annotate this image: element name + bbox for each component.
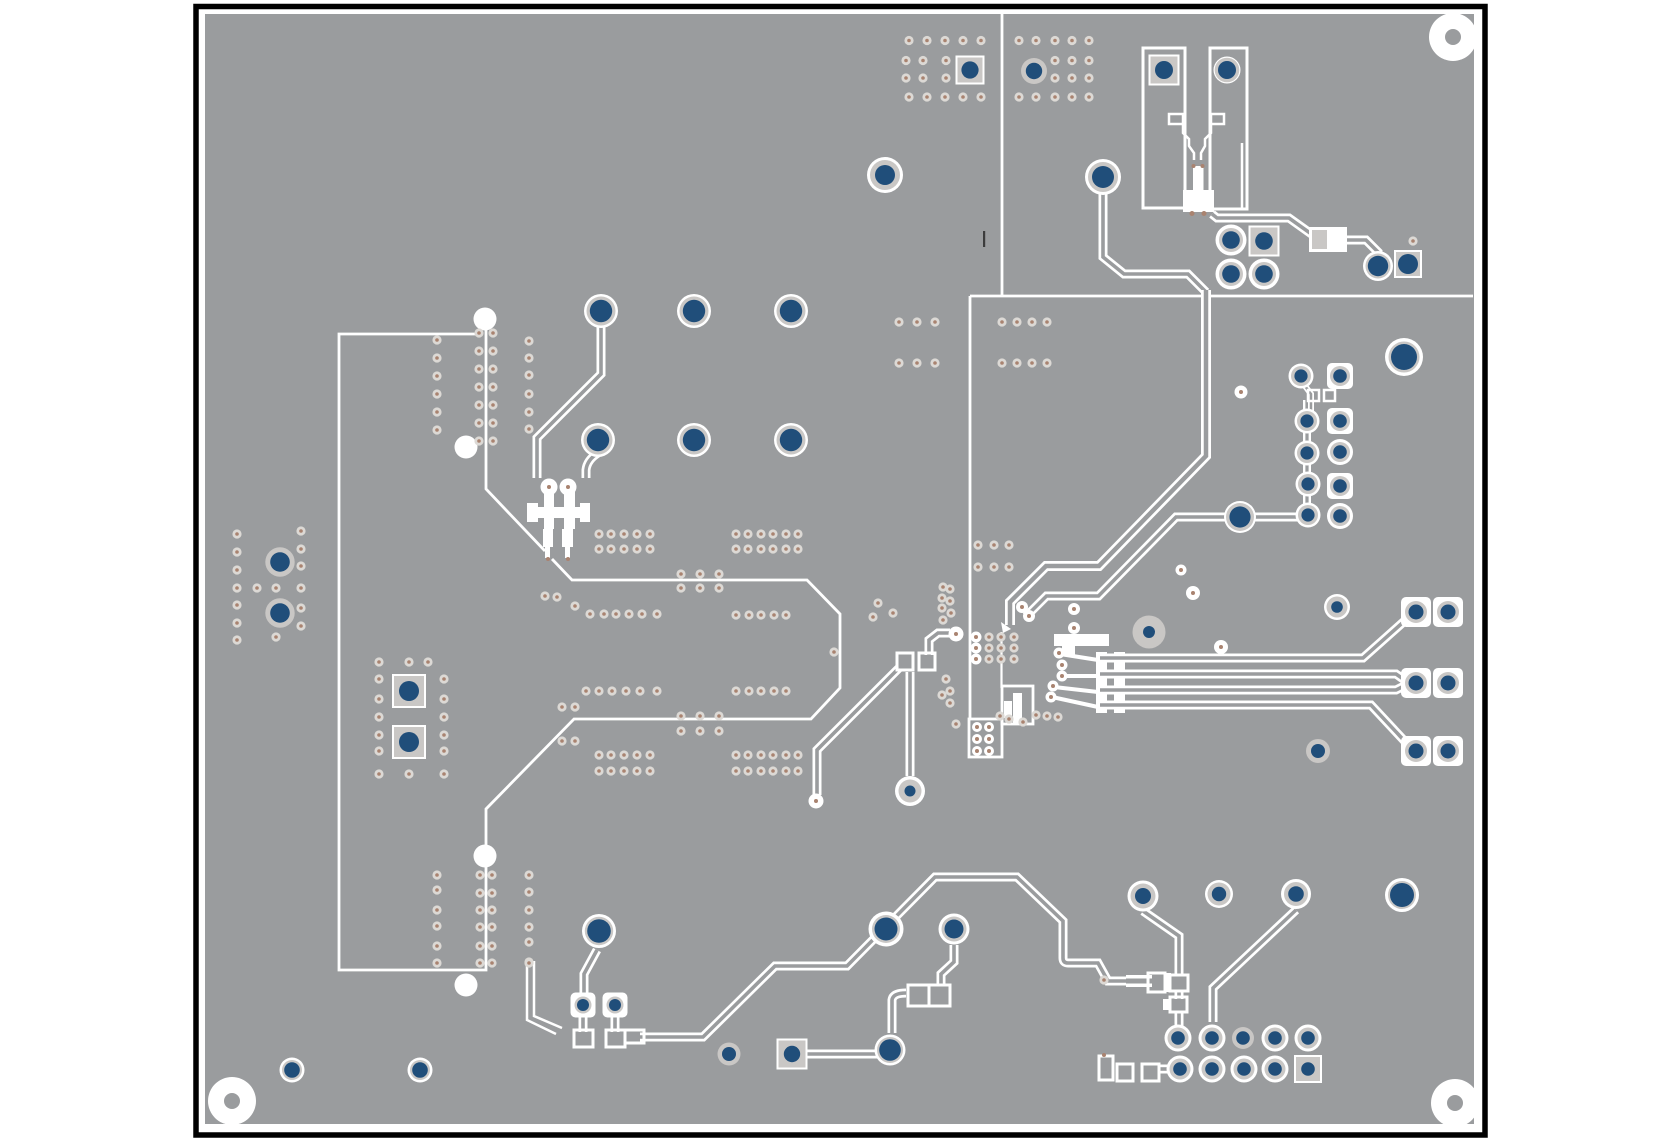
pad cluster mid-top-right: [997, 317, 1051, 367]
via G6: [1167, 1056, 1194, 1083]
central plane region pad box: [969, 719, 1002, 757]
white pad b: [1186, 586, 1200, 600]
antenna taper left: [1183, 125, 1194, 160]
resistor network RN1 bars: [1096, 652, 1125, 713]
pad single right: [829, 647, 838, 656]
via C4: [1249, 259, 1280, 290]
pad row low-left: [581, 686, 661, 695]
trace end pad right: [949, 627, 964, 642]
trace via H3 to R4: [941, 945, 954, 984]
trace via D1 to via column: [1255, 513, 1300, 522]
pad cluster top-left: [901, 36, 985, 102]
via G4: [1262, 1025, 1289, 1052]
pad trio lower: [676, 711, 723, 735]
via E2: [571, 993, 596, 1018]
pad grid center: [984, 632, 1018, 663]
mounting hole bottom-right: [1431, 1079, 1479, 1127]
mounting hole bottom-left: [208, 1077, 256, 1125]
fanout trace 4: [1100, 705, 1411, 748]
antenna feed channel: [1193, 166, 1204, 190]
via G8: [1231, 1056, 1258, 1083]
pad scatter center-left: [868, 598, 897, 621]
pad scatter center: [937, 582, 1062, 728]
trace end pad left: [809, 794, 824, 809]
via T4: [1214, 57, 1241, 84]
via P1a: [1401, 597, 1431, 627]
via F3: [1281, 879, 1311, 909]
RN1 stub 2: [1063, 674, 1098, 678]
trace via F1 to R3: [1143, 911, 1179, 974]
transistor Q1 body: [527, 489, 590, 558]
via E4 (tented): [718, 1043, 741, 1066]
via E1 (large): [582, 914, 616, 948]
pad cluster mid-top-left: [894, 317, 939, 367]
edge pad bump column: [971, 632, 982, 643]
white pad a: [1176, 565, 1187, 576]
via D1 (large): [1224, 501, 1256, 533]
via F2: [1205, 880, 1233, 908]
via column link: [1303, 400, 1311, 516]
trace square pad to via H2: [800, 1050, 877, 1059]
via D2 (large): [1385, 338, 1423, 376]
via P1b: [1433, 597, 1463, 627]
via col 3b: [1327, 439, 1353, 465]
via A5 (large): [677, 423, 711, 457]
via K1: [280, 1058, 305, 1083]
trace bundle outer (plane edge): [1010, 290, 1206, 625]
antenna feed tab left: [1169, 114, 1183, 124]
trace R3 to via G1: [1175, 1011, 1184, 1032]
via L4 (square pad): [392, 725, 426, 759]
trace R2 to end pad: [817, 668, 899, 795]
antenna feed dots: [1190, 164, 1207, 216]
via P3a: [1401, 736, 1431, 766]
pad pair lowest: [557, 736, 579, 745]
fiducial tick: [983, 231, 985, 247]
via C6 (square pad): [1394, 250, 1422, 278]
antenna element right (outline): [1210, 48, 1247, 209]
antenna slot line: [1241, 143, 1244, 208]
pad row bottom-left: [594, 750, 654, 775]
white pad g: [1068, 622, 1080, 634]
via B2 (large): [1085, 159, 1121, 195]
via C2 (square pad): [1249, 226, 1280, 257]
via H3: [939, 914, 970, 945]
fanout trace 3: [1100, 685, 1406, 690]
via A3 (large): [774, 294, 808, 328]
pad scatter upper: [540, 591, 579, 610]
via G3 (tented): [1232, 1027, 1254, 1049]
clearance hole top: [474, 308, 497, 331]
black border frame: [196, 7, 1485, 1136]
pad column 1 lower: [432, 870, 441, 967]
box pads: [972, 722, 982, 732]
white pad chain: [1054, 648, 1065, 659]
cluster drop line: [1000, 632, 1002, 688]
trace connector link: [1158, 1065, 1172, 1074]
pad row mid-right: [731, 610, 790, 619]
pad row mid-left: [585, 609, 661, 618]
RN1 stub 4: [1052, 697, 1098, 707]
long bottom trace: [640, 877, 1128, 1037]
via A4 (large): [581, 423, 615, 457]
pad row bottom-right: [731, 750, 802, 775]
via G10 (square pad): [1294, 1055, 1322, 1083]
via G1: [1165, 1025, 1192, 1052]
trace antenna feed to R1: [1212, 214, 1317, 238]
via col 4a: [1296, 472, 1321, 497]
resistor R2 pads: [897, 653, 935, 670]
trace via F3 to via G2: [1213, 910, 1296, 1022]
via K2: [408, 1058, 433, 1083]
R3 neck: [1175, 990, 1184, 999]
stub line pair b: [534, 961, 562, 1028]
via H4 (large): [869, 912, 904, 947]
antenna feed pad: [1183, 190, 1214, 212]
component R5 pads: [574, 1030, 644, 1047]
via C5: [1363, 251, 1393, 281]
pad row low-right: [731, 686, 790, 695]
via L3 (square pad): [392, 674, 426, 708]
transistor Q1 pin2 hole: [560, 479, 577, 496]
resistor R1 pads: [1309, 227, 1347, 252]
via M3 (tented): [1306, 739, 1330, 763]
via column jog squares: [1308, 390, 1335, 401]
left plane region outline: [339, 334, 840, 970]
via T1 (square pad): [956, 56, 985, 85]
trace from via B2 down-right: [1103, 192, 1206, 292]
via col 2b: [1327, 408, 1353, 434]
transistor Q1 leg dots: [546, 557, 570, 561]
via col 5b: [1327, 503, 1353, 529]
trace R2 to end pad right: [929, 633, 950, 655]
resistor R4 pads: [908, 985, 950, 1006]
long bottom trace end: [1126, 975, 1152, 987]
component R3 pads: [1148, 973, 1188, 1012]
via col 5a: [1296, 503, 1321, 528]
via M2: [1324, 594, 1350, 620]
clearance hole mid: [455, 436, 478, 459]
via E5 (square pad): [777, 1039, 808, 1070]
via C1: [1216, 225, 1247, 256]
via col S-link: [1302, 382, 1311, 418]
connector J2 shell: [1099, 1053, 1159, 1081]
pad pair low: [557, 702, 579, 711]
via col 1b: [1327, 363, 1353, 389]
antenna feed tab right: [1211, 114, 1224, 124]
pad trio upper: [676, 569, 723, 592]
pad column 2 lower: [475, 870, 496, 967]
trace bundle inner from via D1: [1026, 517, 1237, 617]
RN1 stub 3: [1054, 687, 1098, 692]
pad row arrow top-left: [594, 529, 654, 553]
component U2 bar: [1054, 634, 1109, 656]
via G7: [1199, 1056, 1226, 1083]
trace R4 to via H2: [892, 993, 906, 1033]
trace via H1 up: [906, 672, 915, 776]
via col 4b: [1327, 473, 1353, 499]
via A1 (large): [584, 294, 618, 328]
via A6 (large): [774, 423, 808, 457]
via P2b: [1433, 668, 1463, 698]
via col 2a: [1295, 409, 1320, 434]
via G5: [1295, 1025, 1322, 1052]
via col 1a: [1289, 364, 1314, 389]
white pad d: [1016, 601, 1028, 613]
white pad c: [1214, 640, 1228, 654]
stub line pair a: [527, 963, 556, 1034]
via G9: [1262, 1056, 1289, 1083]
pad row arrow top-right: [731, 529, 802, 553]
via P3b: [1433, 736, 1463, 766]
via col 3a: [1295, 441, 1320, 466]
trace from via A1 to Q1 pin1: [537, 325, 601, 478]
pad dots trace jog: [1099, 236, 1417, 984]
via M1 (tented): [1133, 616, 1166, 649]
antenna element left (outline): [1143, 48, 1185, 208]
white pad f: [1068, 603, 1080, 615]
pad column 2 upper: [474, 328, 497, 445]
pad grid center upper: [973, 540, 1013, 571]
white pad e: [1023, 610, 1035, 622]
trace from via A4 to Q1 pin2: [586, 453, 598, 478]
trace via E3 to pad: [611, 1012, 620, 1032]
clearance hole on edge: [474, 845, 497, 868]
pad column 3 upper: [524, 336, 533, 433]
bundle end wedge: [1001, 622, 1011, 633]
via T2 (tented): [1021, 58, 1047, 84]
via G2: [1199, 1025, 1226, 1052]
plane split vertical: [1001, 14, 1004, 295]
via T5 (large): [867, 157, 903, 193]
left plane region right edge: [486, 327, 545, 551]
pad cluster left vias: [232, 526, 305, 644]
antenna taper right: [1201, 125, 1211, 160]
via L1 (tented): [265, 547, 294, 576]
via E3: [603, 993, 628, 1018]
via A2 (large): [677, 294, 711, 328]
plane split horizontal: [970, 295, 1473, 298]
via T3 (square pad): [1149, 55, 1180, 86]
pad column 1 upper: [432, 335, 441, 434]
via H2 (large): [875, 1035, 906, 1066]
component U3 outline: [1002, 686, 1033, 724]
white pad right-mid: [1235, 386, 1248, 399]
trace via E1 to via E2: [584, 950, 597, 996]
trace via E2 to pad: [579, 1012, 588, 1032]
pad column 3 lower: [524, 870, 533, 966]
via C3: [1216, 259, 1247, 290]
central plane region left edge: [969, 296, 972, 719]
via H1: [895, 776, 925, 806]
trace R1 to via C5: [1343, 240, 1378, 262]
pad cluster top-right: [1014, 36, 1093, 102]
RN1 stub 1: [1060, 654, 1098, 660]
via F4 (large): [1385, 878, 1419, 912]
fanout trace 2: [1100, 674, 1406, 681]
pad cluster around L3 L4: [374, 657, 448, 778]
clearance hole bottom: [455, 974, 478, 997]
board copper pour: [205, 14, 1474, 1124]
via P2a: [1401, 668, 1431, 698]
pad single elbow: [524, 958, 533, 967]
via F1: [1128, 881, 1159, 912]
mounting hole top-right: [1429, 13, 1477, 61]
transistor Q1 pin1 hole: [541, 479, 558, 496]
fanout trace 1: [1100, 617, 1409, 658]
via L2 (tented): [265, 598, 294, 627]
